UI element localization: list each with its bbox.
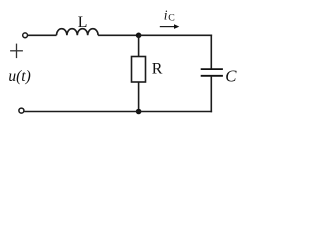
wire node A to top-right corner xyxy=(139,34,213,36)
svg-text:i: i xyxy=(164,8,168,23)
svg-text:L: L xyxy=(78,14,88,31)
bottom wire xyxy=(24,111,212,113)
wire resistor to node B xyxy=(138,82,140,112)
wire right branch lower xyxy=(210,76,212,113)
capacitor C1 bottom plate xyxy=(201,75,223,77)
plus sign xyxy=(10,50,23,52)
capacitor C1 top plate xyxy=(201,68,223,70)
wire node A to resistor xyxy=(138,35,140,56)
terminal top-left xyxy=(23,33,28,38)
arrow iC xyxy=(160,26,176,28)
wire inductor to node A xyxy=(98,34,139,36)
wire top-left to inductor xyxy=(28,34,57,36)
inductor L1 coil xyxy=(57,29,99,36)
node B junction dot xyxy=(136,109,142,115)
resistor R1 body xyxy=(132,57,146,83)
svg-text:R: R xyxy=(152,61,163,78)
terminal bottom-left xyxy=(19,108,24,113)
node A junction dot xyxy=(136,33,142,39)
svg-text:u(t): u(t) xyxy=(8,68,30,85)
svg-text:C: C xyxy=(168,13,175,24)
wire right branch upper xyxy=(210,35,212,70)
svg-text:C: C xyxy=(225,66,237,85)
